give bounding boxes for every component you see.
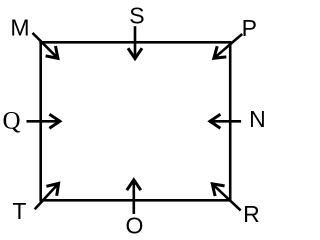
arrow into corner T (pointing up-right) — [35, 183, 59, 209]
square outline — [41, 42, 231, 200]
svg-text:S: S — [129, 3, 144, 29]
arrow into corner M (pointing down-right) — [33, 33, 58, 58]
arrow Q (pointing right into left edge) — [27, 114, 60, 128]
arrow O (pointing up into bottom edge) — [127, 180, 141, 214]
arrow N (pointing left into right edge) — [210, 114, 241, 128]
arrow into corner R (pointing up-left) — [212, 184, 240, 211]
arrow S (pointing down into top edge) — [128, 26, 142, 58]
arrow into corner P (pointing down-left) — [214, 34, 242, 58]
svg-text:P: P — [242, 15, 257, 41]
svg-text:T: T — [12, 198, 26, 224]
svg-text:O: O — [126, 213, 144, 236]
svg-text:R: R — [243, 201, 260, 227]
svg-text:N: N — [249, 106, 266, 132]
svg-text:Q: Q — [2, 107, 20, 134]
svg-text:M: M — [10, 14, 29, 40]
